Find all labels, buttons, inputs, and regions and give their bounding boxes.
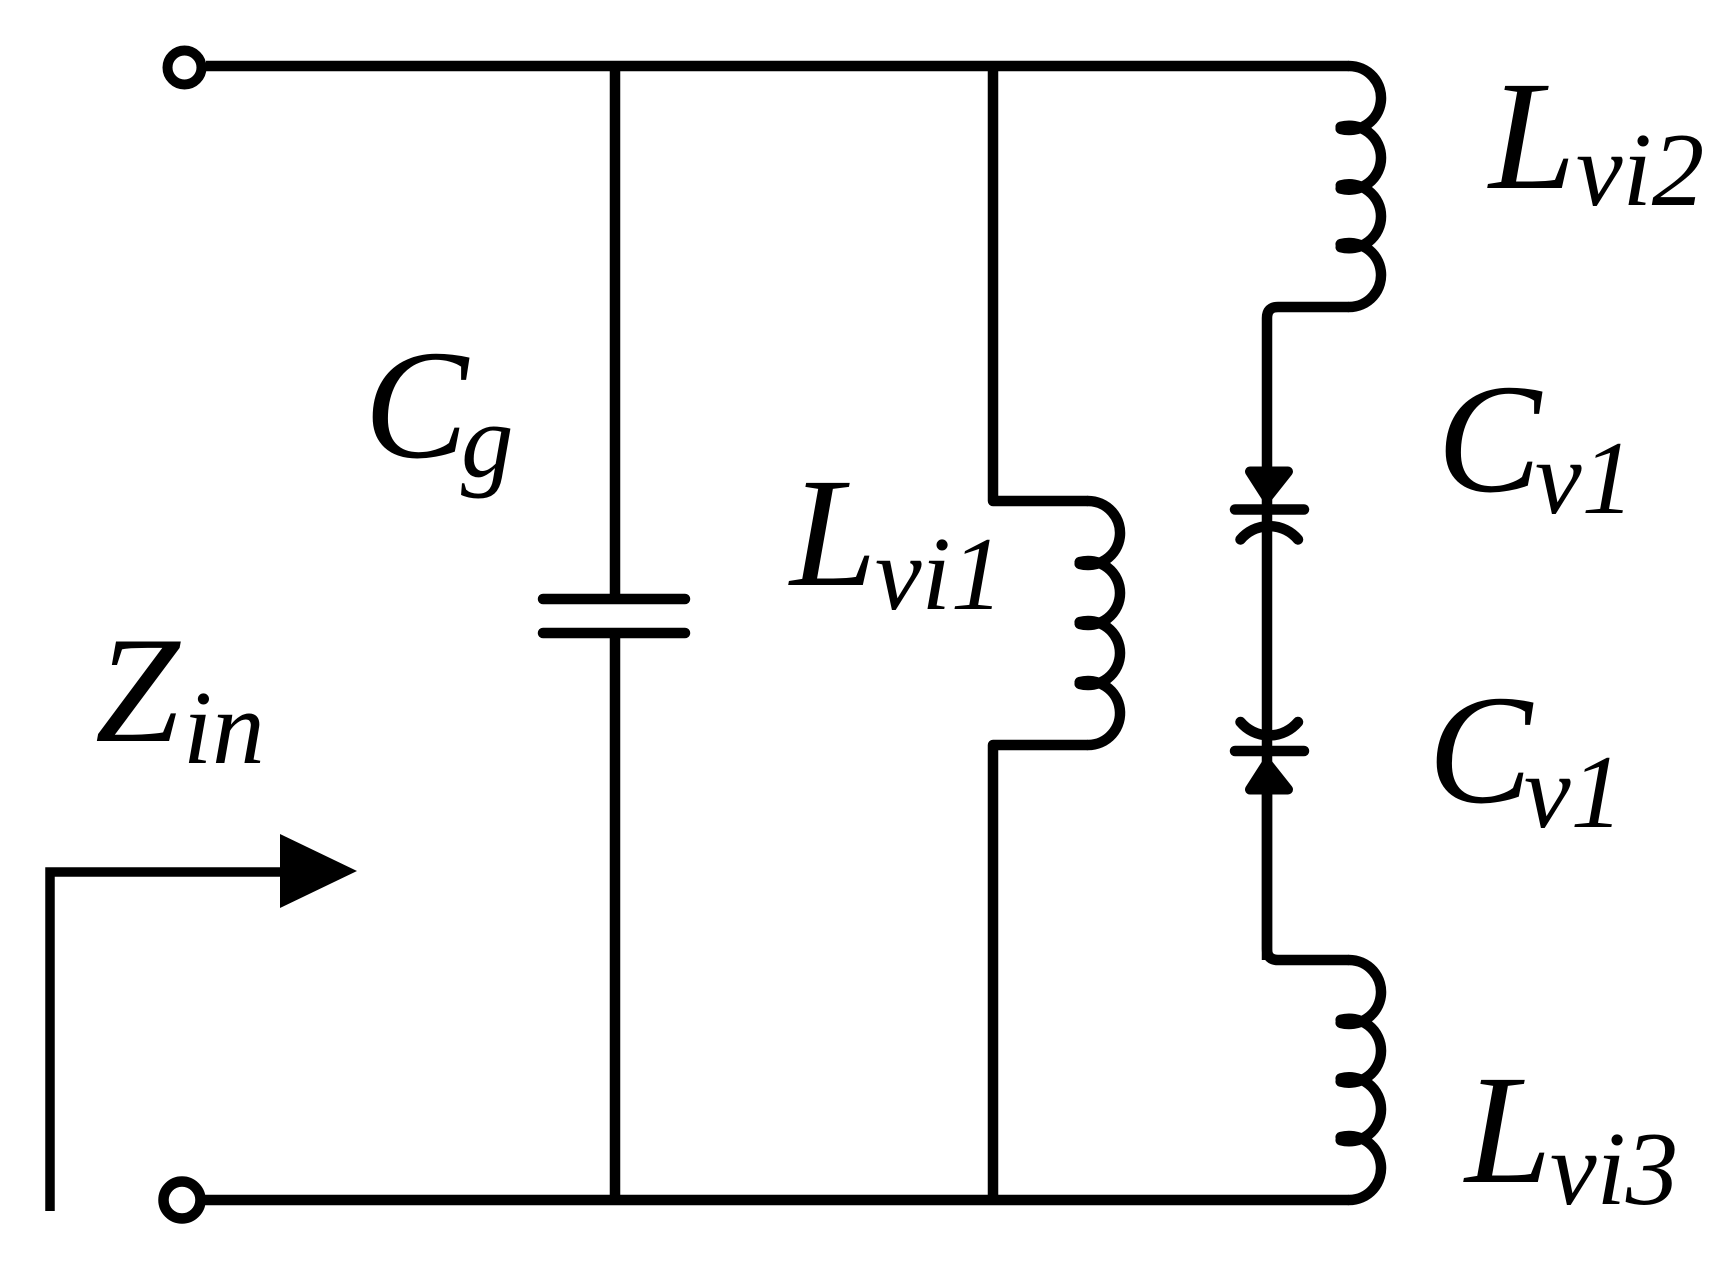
wire Cg branch lower [610,636,621,1200]
wire varactor to Lvi3 [1267,794,1349,960]
svg-text:C: C [1437,352,1543,525]
wire Zin measurement bracket [50,872,300,1211]
label C_v1 (upper varactor) [1437,352,1634,536]
wire Lvi1 branch lower [993,745,1088,1200]
wire top rail [206,61,1349,72]
svg-text:v1: v1 [1535,419,1634,536]
wire Lvi1 branch upper [993,66,1088,501]
label L_vi2 [1487,49,1704,228]
svg-text:v1: v1 [1524,733,1623,850]
svg-text:L: L [788,446,877,619]
capacitor C_g [543,599,685,633]
svg-text:g: g [461,382,514,499]
terminal port P2 (bottom-left open circle) [164,1182,201,1219]
wire varactor stack vertical [1262,470,1273,960]
svg-text:vi3: vi3 [1550,1110,1678,1227]
svg-text:Z: Z [95,606,181,774]
svg-text:L: L [1463,1043,1552,1216]
varactor diode D2 (C_v1 bottom, anode down) [1235,722,1304,790]
inductor L_vi3 (4 bumps) [1341,960,1381,1200]
wire Lvi2 to varactor branch [1267,307,1349,470]
inductor L_vi2 (4 bumps, fed from top rail) [1341,66,1381,307]
svg-text:C: C [1428,663,1534,836]
label C_g [364,318,514,499]
varactor diode D1 (C_v1 top, anode up) [1235,472,1304,540]
svg-text:in: in [183,669,265,786]
svg-text:vi1: vi1 [875,515,1003,632]
svg-text:C: C [364,318,470,491]
label Z_in [95,606,265,786]
wire Cg branch upper [610,66,621,596]
terminal port P1 (top-left open circle) [168,51,202,85]
label C_v1 (lower varactor) [1428,663,1623,850]
arrowhead of Zin [280,834,357,908]
wire bottom rail [204,1195,1349,1206]
inductor L_vi1 (4 bumps) [1080,501,1120,745]
svg-text:vi2: vi2 [1576,111,1704,228]
svg-text:L: L [1487,49,1576,222]
label L_vi1 [788,446,1003,632]
label L_vi3 [1463,1043,1678,1227]
